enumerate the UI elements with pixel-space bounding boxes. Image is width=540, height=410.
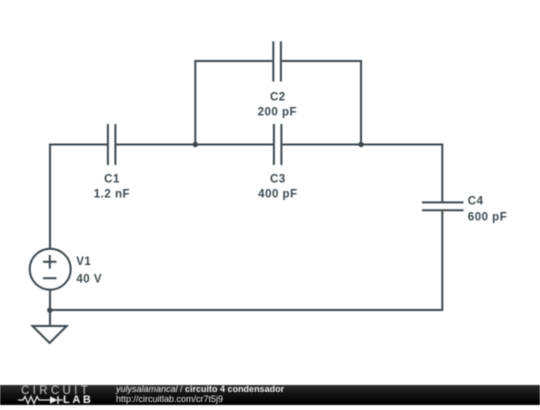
svg-text:40 V: 40 V [76, 273, 102, 285]
CircuitLab logo LAB [63, 394, 93, 406]
svg-text:C3: C3 [270, 174, 286, 186]
capacitor C1 [108, 124, 116, 165]
footer url line [116, 395, 223, 405]
svg-text:600 pF: 600 pF [468, 211, 507, 223]
CircuitLab logo wordmark [21, 385, 91, 397]
label V1 value 40 V [76, 256, 102, 285]
junction node [47, 308, 52, 313]
svg-text:C1: C1 [104, 174, 120, 186]
svg-text:400 pF: 400 pF [258, 188, 297, 200]
svg-text:V1: V1 [76, 256, 91, 268]
capacitor C4 [422, 202, 464, 210]
wire [50, 145, 107, 250]
wire [116, 144, 273, 146]
svg-text:1.2 nF: 1.2 nF [94, 188, 130, 200]
ground [33, 326, 67, 343]
svg-text:C2: C2 [270, 92, 286, 104]
label C1 value 1.2 nF [94, 174, 130, 201]
label C3 value 400 pF [258, 174, 297, 201]
wire [282, 61, 361, 144]
voltage source V1 [30, 249, 71, 290]
junction node [193, 142, 198, 147]
logo resistor-diode glyph [17, 394, 67, 405]
wire [282, 145, 442, 202]
label C4 value 600 pF [468, 196, 507, 224]
footer bar [0, 385, 540, 406]
capacitor C2 [273, 41, 281, 81]
footer attribution line [116, 385, 284, 395]
svg-text:200 pF: 200 pF [258, 106, 297, 118]
wire [49, 291, 51, 326]
wire [51, 211, 443, 310]
svg-text:C4: C4 [468, 196, 484, 208]
label C2 value 200 pF [258, 92, 297, 119]
wire [195, 61, 272, 145]
junction node [358, 142, 363, 147]
capacitor C3 [274, 124, 282, 165]
